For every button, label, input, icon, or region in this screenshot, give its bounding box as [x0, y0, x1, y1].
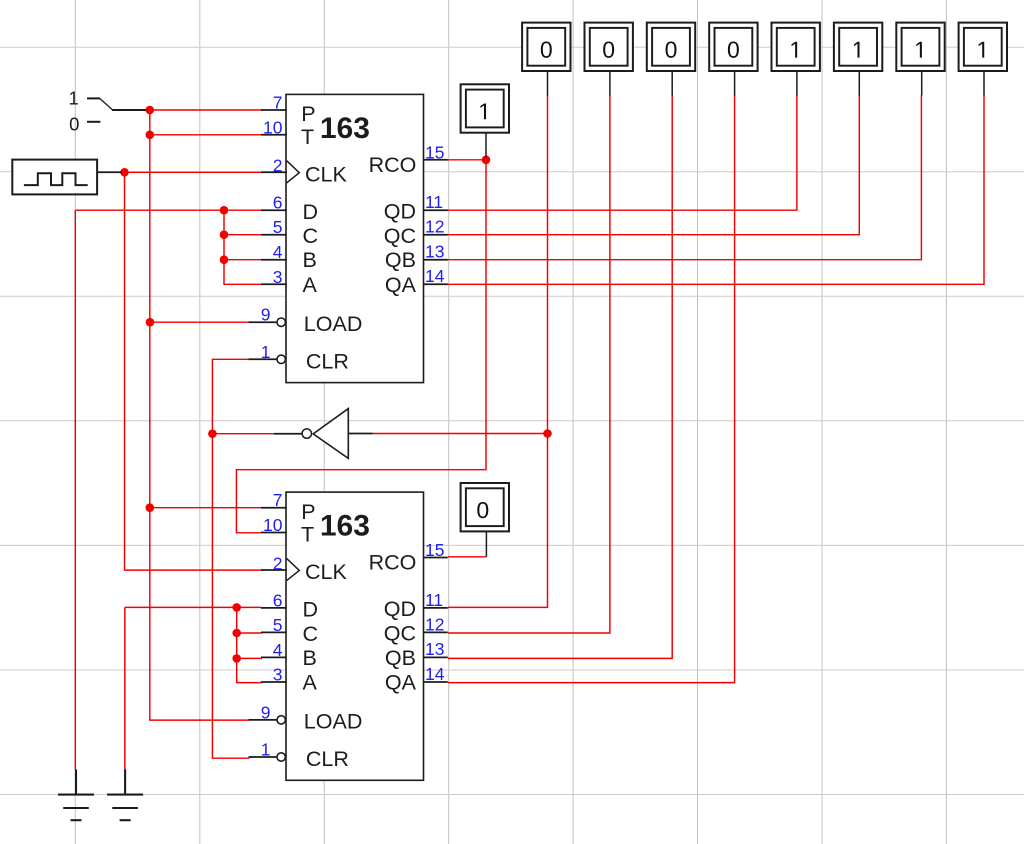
switch contact 1	[87, 97, 100, 99]
svg-text:P: P	[301, 102, 315, 126]
clock input chevron U2	[287, 558, 300, 580]
pin 5 stub U1	[261, 234, 287, 236]
junction rail at U2 pin7 row	[146, 503, 155, 512]
pin 4 stub U1	[261, 259, 287, 261]
wire ground rail 2 vertical	[124, 607, 126, 769]
pin 12 QC stub U1	[423, 234, 448, 236]
svg-text:1: 1	[261, 342, 271, 362]
junction U1 D node	[220, 206, 229, 215]
ground bar 3	[71, 819, 82, 821]
clock waveform symbol	[24, 173, 88, 185]
svg-text:RCO: RCO	[369, 153, 417, 177]
wire U2 QA to probe4	[448, 95, 735, 682]
svg-text:6: 6	[273, 590, 283, 610]
junction rail at U1 LOAD row	[146, 318, 155, 327]
svg-text:10: 10	[263, 117, 283, 137]
probe P1 value digit 0	[541, 42, 552, 58]
clock output lead	[97, 171, 121, 173]
svg-text:7: 7	[273, 93, 283, 113]
probe P4 pin lead	[734, 71, 736, 96]
probe P2 value digit 0	[603, 42, 614, 58]
svg-text:A: A	[303, 671, 318, 695]
wire branch to U1 B	[224, 259, 261, 261]
svg-text:5: 5	[273, 217, 283, 237]
wire inverter output	[212, 433, 274, 435]
probe P2 inner box	[590, 28, 628, 66]
svg-text:12: 12	[425, 614, 444, 634]
wire U2 RCO to probe	[448, 556, 486, 558]
svg-text:14: 14	[425, 664, 445, 684]
pin 11 QD stub U1	[423, 209, 448, 211]
svg-text:2: 2	[273, 553, 283, 573]
probe P8 value digit 1	[979, 42, 985, 58]
pin 3 stub U1	[261, 283, 287, 285]
junction U1 B node	[220, 255, 229, 264]
wire U1 RCO	[448, 159, 487, 161]
svg-text:QA: QA	[385, 273, 417, 297]
pin 9 LOAD stub and bubble U2	[249, 719, 277, 721]
probe P3 value 0	[647, 23, 695, 96]
pin 15 RCO stub U1	[423, 159, 448, 161]
probe P5 outer box	[772, 23, 820, 71]
probe P7 value digit 1	[916, 42, 922, 58]
pin 1 CLR stub and bubble U1	[249, 358, 277, 360]
probe P7 value 1	[896, 23, 944, 96]
svg-text:T: T	[301, 125, 314, 149]
svg-text:11: 11	[425, 192, 443, 212]
svg-text:163: 163	[320, 112, 370, 145]
wire switch to U1 pin7 P	[150, 109, 262, 111]
svg-text:1: 1	[68, 88, 78, 109]
svg-text:B: B	[303, 248, 317, 272]
wire U1 QC to probe6	[448, 95, 860, 235]
svg-text:CLK: CLK	[305, 162, 347, 186]
svg-text:1: 1	[261, 740, 271, 760]
probe P4 value digit 0	[728, 42, 739, 58]
probe P5 inner box	[777, 28, 815, 66]
svg-text:A: A	[303, 273, 318, 297]
pin 9 LOAD stub and bubble U1	[249, 321, 277, 323]
inverter bubble	[302, 429, 311, 438]
svg-text:QB: QB	[385, 248, 416, 272]
svg-text:LOAD: LOAD	[304, 710, 363, 734]
pin 14 QA stub U2	[423, 681, 448, 683]
ground bar 2	[112, 807, 138, 809]
wire clock to U1 CLK	[122, 171, 263, 173]
svg-text:QC: QC	[384, 224, 416, 248]
wire inverter out to U1 CLR and U2 CLR	[212, 359, 249, 758]
probe P6 pin lead	[858, 71, 860, 96]
wire inverter input from QD2 net	[373, 433, 548, 435]
counter U1 163	[249, 93, 448, 383]
switch contact 0	[87, 121, 100, 123]
junction switch rail at pin7 row	[146, 106, 155, 115]
probe P7 outer box	[896, 23, 944, 71]
probe P1 inner box	[527, 28, 565, 66]
svg-text:CLR: CLR	[306, 747, 349, 771]
pin 10 stub U1	[261, 134, 287, 136]
svg-text:10: 10	[263, 515, 283, 535]
svg-text:T: T	[301, 523, 314, 547]
svg-text:15: 15	[425, 142, 444, 162]
pin 5 stub U2	[261, 631, 287, 633]
counter U2 163	[249, 490, 448, 780]
svg-text:6: 6	[273, 193, 283, 213]
pin 3 stub U2	[261, 681, 287, 683]
probe P3 inner box	[652, 28, 690, 66]
svg-text:P: P	[301, 500, 315, 524]
svg-text:CLK: CLK	[305, 560, 347, 584]
svg-text:2: 2	[273, 156, 283, 176]
wire U2 DCBA branch vertical to A	[237, 607, 262, 682]
pin 15 RCO stub U2	[423, 557, 448, 559]
probe P8 outer box	[959, 23, 1007, 71]
ground stem	[124, 769, 126, 794]
switch common lead	[112, 109, 146, 111]
pin 6 stub U1	[261, 209, 287, 211]
wire rail to U2 pin7 P	[150, 507, 261, 509]
svg-text:RCO: RCO	[369, 551, 417, 575]
pin 10 stub U2	[261, 532, 287, 534]
probe P9 outer box	[461, 84, 509, 132]
pin 6 stub U2	[261, 607, 287, 609]
pin 14 QA stub U1	[423, 283, 448, 285]
svg-text:9: 9	[261, 702, 271, 722]
svg-text:C: C	[303, 622, 319, 646]
probe P6 value digit 1	[854, 42, 860, 58]
wire rail to U1 pin10 T	[150, 134, 262, 136]
wire U2 QC to probe2	[448, 95, 610, 633]
svg-text:CLR: CLR	[306, 349, 349, 373]
wire U1 RCO to U2 pin10 T	[236, 160, 486, 533]
probe P5 value digit 1	[792, 42, 798, 58]
wire branch to U2 C	[237, 632, 262, 634]
ground bar 3	[120, 819, 131, 821]
svg-text:12: 12	[425, 217, 444, 237]
svg-text:LOAD: LOAD	[304, 312, 363, 336]
ground bar 1	[107, 794, 143, 796]
svg-text:QD: QD	[384, 597, 416, 621]
svg-text:B: B	[303, 646, 317, 670]
probe P4 value 0	[709, 23, 757, 96]
svg-text:QD: QD	[384, 199, 416, 223]
ground stem	[75, 769, 77, 794]
svg-text:13: 13	[425, 242, 444, 262]
probe P10 inner box	[466, 488, 504, 526]
probe P8 inner box	[964, 28, 1002, 66]
probe P9 inner box	[466, 90, 504, 128]
probe P8 pin lead	[983, 71, 985, 96]
probe P10 outer box	[461, 483, 509, 531]
wire high rail down to U2 LOAD	[150, 110, 249, 720]
probe P1 pin lead	[547, 71, 549, 96]
junction U2 D node	[232, 603, 241, 612]
wire U1 QA to probe8	[448, 95, 985, 284]
probe P10 pin lead	[485, 531, 487, 556]
svg-text:14: 14	[425, 266, 445, 286]
probe P6 outer box	[834, 23, 882, 71]
probe P2 pin lead	[609, 71, 611, 96]
inverter input lead	[348, 433, 373, 435]
probe P3 outer box	[647, 23, 695, 71]
svg-text:7: 7	[273, 490, 283, 510]
svg-text:13: 13	[425, 639, 444, 659]
ground bar 2	[63, 807, 89, 809]
body outline U1	[286, 94, 424, 382]
pin 2 stub U1	[261, 171, 287, 173]
pin 13 QB stub U1	[423, 259, 448, 261]
svg-text:QB: QB	[385, 646, 416, 670]
svg-text:C: C	[303, 224, 319, 248]
inverter U3 (NOT gate, pointing left)	[274, 409, 373, 459]
svg-text:D: D	[303, 598, 319, 622]
inverter triangle	[313, 409, 348, 459]
svg-text:QC: QC	[384, 622, 416, 646]
probe P5 pin lead	[796, 71, 798, 96]
svg-text:9: 9	[261, 305, 271, 325]
probe P9 pin lead	[485, 133, 487, 158]
junction U2 C node	[232, 629, 241, 638]
clock input chevron U1	[287, 161, 300, 183]
wire branch to U2 B	[237, 657, 262, 659]
svg-text:0: 0	[69, 114, 79, 135]
wire U1 DCBA branch vertical to A	[224, 210, 261, 284]
clock generator CLK	[12, 160, 121, 195]
pin 13 QB stub U2	[423, 656, 448, 658]
wire branch to U1 C	[224, 234, 261, 236]
wire U1 QB to probe7	[448, 95, 922, 260]
pin 11 QD stub U2	[423, 607, 448, 609]
wire U1 QD to probe5	[448, 95, 797, 210]
svg-text:D: D	[303, 200, 319, 224]
junction CLR net at inverter output	[208, 429, 217, 438]
junction clock node	[120, 168, 129, 177]
switch arm	[100, 99, 113, 110]
probe P7 inner box	[902, 28, 940, 66]
junction rail at pin10 row	[146, 131, 155, 140]
probe P8 value 1	[959, 23, 1007, 96]
wire ground rail to U1 D	[75, 209, 261, 211]
ground GND2 (U2 load value rail)	[107, 769, 143, 820]
pin 4 stub U2	[261, 656, 287, 658]
switch S1 (logic 1/0 input)	[68, 88, 146, 135]
pin 2 stub U2	[261, 569, 287, 571]
pin 1 CLR stub and bubble U2	[249, 756, 277, 758]
svg-text:QA: QA	[385, 671, 417, 695]
svg-text:3: 3	[273, 665, 283, 685]
probe P5 value 1	[772, 23, 820, 96]
wire ground rail 1 vertical	[74, 210, 76, 769]
wire rail to U1 LOAD	[150, 321, 249, 323]
probe P10 value digit 0	[477, 502, 488, 518]
probe P4 inner box	[715, 28, 753, 66]
svg-text:4: 4	[273, 242, 283, 262]
svg-text:163: 163	[320, 510, 370, 543]
probe P6 value 1	[834, 23, 882, 96]
probe P3 value digit 0	[666, 42, 677, 58]
ground bar 1	[58, 794, 94, 796]
probe P4 outer box	[709, 23, 757, 71]
ground GND1 (U1 load value rail)	[58, 769, 94, 820]
pin 12 QC stub U2	[423, 631, 448, 633]
probe P9 value 1 (U1 RCO)	[461, 84, 509, 157]
wire U2 QD to probe1	[448, 95, 548, 607]
probe P6 inner box	[839, 28, 877, 66]
clock body box	[12, 160, 97, 195]
junction U2 B node	[232, 654, 241, 663]
svg-text:15: 15	[425, 540, 444, 560]
inverter output lead	[274, 433, 302, 435]
svg-text:5: 5	[273, 615, 283, 635]
wire U2 QB to probe3	[448, 95, 672, 658]
probe P2 outer box	[585, 23, 633, 71]
wire clock down to U2 CLK	[125, 172, 263, 570]
svg-text:3: 3	[273, 267, 283, 287]
pin 7 stub U2	[261, 507, 287, 509]
junction QD2 net at inverter input	[543, 429, 552, 438]
probe P1 value 0	[522, 23, 570, 96]
probe P7 pin lead	[921, 71, 923, 96]
probe P1 outer box	[522, 23, 570, 71]
junction U1 RCO node	[482, 156, 491, 165]
probe P10 value 0 (U2 RCO)	[461, 483, 509, 557]
probe P3 pin lead	[671, 71, 673, 96]
pin 7 stub U1	[261, 109, 287, 111]
body outline U2	[286, 492, 424, 780]
wire ground rail to U2 D	[125, 606, 261, 608]
probe P2 value 0	[585, 23, 633, 96]
svg-text:11: 11	[425, 590, 443, 610]
probe P9 value digit 1	[480, 103, 486, 119]
junction U1 C node	[220, 230, 229, 239]
svg-text:4: 4	[273, 640, 283, 660]
